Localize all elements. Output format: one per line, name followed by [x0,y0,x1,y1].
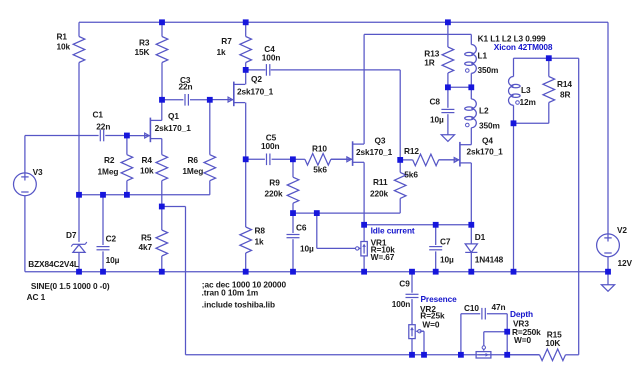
inductor L3 [508,77,535,107]
wire [78,63,80,195]
resistor R1 [57,32,85,63]
wire [245,159,247,227]
svg-text:R6: R6 [188,155,199,165]
wire [246,69,266,71]
svg-text:Idle current: Idle current [371,226,415,236]
svg-text:1Meg: 1Meg [98,167,119,177]
svg-text:R8: R8 [255,226,266,236]
potentiometer VR2 [409,304,445,339]
svg-text:220k: 220k [370,188,389,198]
junction [124,133,130,139]
wire [470,163,472,225]
svg-text:1k: 1k [255,237,265,247]
svg-text:R14: R14 [557,79,572,89]
wire [447,114,449,135]
svg-text:L3: L3 [521,85,531,95]
wire [161,63,163,100]
capacitor C10 [464,302,506,320]
wire [78,22,80,36]
wire [435,225,437,245]
svg-text:C9: C9 [399,278,410,288]
svg-text:C7: C7 [440,237,451,247]
capacitor C1 [93,110,111,142]
text Presence [421,294,458,304]
svg-text:5k6: 5k6 [404,169,418,179]
capacitor C2 [97,234,120,266]
svg-text:R12: R12 [404,146,419,156]
wire [470,34,472,44]
wire [292,213,294,233]
svg-text:Q3: Q3 [375,135,386,145]
wire [447,22,449,47]
wire [331,158,353,160]
wire [420,330,424,332]
wire [293,212,400,214]
svg-text:22n: 22n [179,81,193,91]
svg-text:1R: 1R [424,58,435,68]
wire [245,70,247,85]
wire [102,251,104,271]
svg-text:Xicon 42TM008: Xicon 42TM008 [494,42,553,52]
resistor R14 [543,77,572,103]
wire [161,22,163,36]
svg-text:C1: C1 [93,110,104,120]
svg-text:10k: 10k [140,166,154,176]
capacitor C8 [430,97,455,125]
wire [607,272,609,285]
junction [445,19,451,25]
inductor L2 [465,99,500,130]
wire [292,159,294,177]
svg-text:10k: 10k [57,42,71,52]
svg-text:1k: 1k [217,47,227,57]
svg-text:R9: R9 [269,177,280,187]
svg-text:10µ: 10µ [440,255,454,265]
junction [159,97,165,103]
svg-text:12V: 12V [618,258,633,268]
svg-text:2sk170_1: 2sk170_1 [237,87,274,97]
junction [445,84,451,90]
wire [245,63,247,70]
junction [511,120,517,126]
wire [185,207,187,355]
svg-text:350m: 350m [478,65,499,75]
potentiometer VR1 [356,237,396,262]
wire [439,159,460,161]
junction [159,19,165,25]
junction [421,352,427,358]
svg-text:BZX84C2V4L: BZX84C2V4L [28,259,79,269]
capacitor C7 [429,237,454,265]
wire [161,100,163,121]
wire [507,354,539,356]
wire [411,272,413,293]
resistor R9 [265,177,299,203]
svg-text:R11: R11 [373,177,388,187]
wire [292,203,294,213]
wire [461,313,480,315]
svg-text:L2: L2 [479,106,489,116]
svg-text:Presence: Presence [421,294,458,304]
wire [209,100,211,155]
transistor Q3 [331,135,393,166]
svg-text:Q2: Q2 [251,74,262,84]
ground [441,135,454,142]
junction [468,222,474,228]
junction [361,222,367,228]
wire [161,139,163,155]
svg-text:1Meg: 1Meg [182,166,203,176]
wire [470,73,472,87]
svg-text:V3: V3 [33,167,43,177]
svg-text:L1: L1 [478,51,488,61]
resistor R7 [217,36,252,63]
text K1 [478,33,546,43]
junction [605,269,611,275]
resistor R2 [98,155,133,181]
wire [470,87,472,99]
wire [24,136,26,174]
svg-text:C8: C8 [430,97,441,107]
junction [511,269,517,275]
junction [361,269,367,275]
wire [607,257,609,272]
svg-text:2sk170_1: 2sk170_1 [155,123,192,133]
wire [470,128,472,145]
spice directive ac [202,279,287,289]
wire [566,354,579,356]
junction [76,192,82,198]
wire [24,196,26,272]
junction [504,329,510,335]
svg-text:AC 1: AC 1 [27,292,46,302]
svg-text:8R: 8R [560,90,571,100]
svg-text:Q4: Q4 [482,135,493,145]
resistor R13 [424,47,453,73]
svg-text:47n: 47n [492,302,506,312]
resistor R3 [135,37,168,63]
wire [363,225,365,242]
svg-text:SINE(0 1.5 1000 0 -0): SINE(0 1.5 1000 0 -0) [31,281,110,291]
junction [504,352,510,358]
wire [411,339,413,355]
wire [399,70,401,160]
voltage source V3 [14,167,110,302]
junction [290,156,296,162]
transistor Q2 [210,74,274,106]
wire [363,34,365,144]
zener diode D7 [28,230,87,269]
junction [314,210,320,216]
junction [290,210,296,216]
junction [243,67,249,73]
svg-text:C6: C6 [296,222,307,232]
wire [245,103,247,160]
svg-text:10µ: 10µ [430,115,444,125]
junction [433,269,439,275]
svg-text:R5: R5 [141,233,152,243]
wire [548,103,550,124]
resistor R5 [139,230,168,256]
text Xicon 42TM008 [494,42,553,52]
junction [243,19,249,25]
wire [447,87,449,108]
wire [411,299,413,325]
svg-text:Depth: Depth [510,309,533,319]
wire [514,57,579,59]
resistor R12 [404,146,439,179]
svg-text:R2: R2 [104,155,115,165]
wire [484,331,507,333]
resistor R10 [305,144,331,175]
wire [399,198,401,213]
junction [76,269,82,275]
junction [409,269,415,275]
wire [447,73,449,87]
wire [506,314,508,355]
wire [292,239,294,272]
transistor Q4 [439,135,503,166]
wire [435,251,437,271]
svg-text:12m: 12m [520,97,536,107]
junction [546,55,552,61]
junction [100,192,106,198]
junction [458,352,464,358]
svg-text:22n: 22n [96,122,110,132]
wire [190,99,210,101]
junction [159,269,165,275]
spice directive tran [202,287,259,297]
wire [607,22,609,234]
wire [102,195,104,245]
wire [487,313,507,315]
inductor L1 [465,45,499,76]
svg-text:10µ: 10µ [106,255,120,265]
wire [548,58,550,76]
svg-text:D1: D1 [475,232,486,242]
svg-text:R10: R10 [312,144,327,154]
junction [124,192,130,198]
wire [470,225,472,244]
wire [79,194,210,196]
svg-text:.tran 0 10m 1m: .tran 0 10m 1m [202,287,259,297]
capacitor C3 [179,75,193,106]
wire [470,252,472,271]
wire [316,213,318,248]
svg-text:100n: 100n [392,299,411,309]
wire [161,181,163,207]
svg-text:W=0: W=0 [514,335,531,345]
text Depth [510,309,533,319]
wire [400,159,413,161]
svg-text:C2: C2 [106,234,117,244]
wire [209,181,211,195]
wire [161,207,163,231]
svg-text:2sk170_1: 2sk170_1 [356,147,393,157]
text Idle current [371,226,415,236]
svg-text:.include toshiba.lib: .include toshiba.lib [202,299,275,309]
wire [25,271,608,273]
wire [162,206,186,208]
wire [448,86,471,88]
svg-text:D7: D7 [66,230,77,240]
svg-text:10µ: 10µ [300,244,314,254]
svg-text:100n: 100n [261,141,280,151]
junction [433,222,439,228]
ground [601,285,614,292]
svg-text:5k6: 5k6 [313,165,327,175]
junction [243,156,249,162]
junction [243,269,249,275]
junction [207,97,213,103]
wire [25,135,99,137]
svg-text:R3: R3 [139,38,150,48]
svg-text:1N4148: 1N4148 [475,255,504,265]
wire [78,253,80,272]
wire [317,247,357,249]
wire [245,22,247,36]
resistor R15 [540,329,566,360]
wire [399,160,401,173]
wire [363,256,365,272]
resistor R6 [182,155,215,181]
transistor Q1 [127,111,191,142]
wire [513,123,515,271]
wire [364,33,471,35]
wire [363,162,365,225]
capacitor C9 [392,278,419,309]
wire [105,135,127,137]
junction [290,269,296,275]
wire [126,136,128,155]
potentiometer VR3 [476,319,541,359]
wire [271,69,401,71]
capacitor C4 [262,44,281,76]
svg-text:15K: 15K [135,47,150,57]
wire [460,314,462,355]
svg-text:100n: 100n [262,53,281,63]
wire [162,99,183,101]
wire [293,158,305,160]
wire [126,181,128,195]
wire [161,256,163,272]
resistor R8 [240,226,265,254]
spice directive include [202,299,275,309]
wire [364,224,471,226]
svg-text:2sk170_1: 2sk170_1 [467,147,504,157]
resistor R11 [370,172,406,198]
wire [79,21,608,23]
wire [246,158,265,160]
wire [272,158,293,160]
junction [468,84,474,90]
junction [409,352,415,358]
junction [159,204,165,210]
wire [513,58,515,76]
resistor R4 [140,155,168,181]
capacitor C6 [287,222,315,253]
junction [468,269,474,275]
voltage source V2 [597,225,633,268]
svg-text:R7: R7 [221,36,232,46]
svg-text:350m: 350m [479,120,500,130]
wire [423,331,425,355]
svg-text:10K: 10K [545,338,560,348]
svg-text:Q1: Q1 [168,111,179,121]
junction [397,157,403,163]
svg-text:R4: R4 [142,155,153,165]
wire [78,195,80,242]
svg-text:W=0: W=0 [422,319,439,329]
wire [245,253,247,272]
capacitor C5 [261,133,280,166]
wire [186,354,540,356]
diode D1 [465,232,503,265]
svg-text:W=.67: W=.67 [371,252,395,262]
wire [514,122,549,124]
svg-text:220k: 220k [265,188,284,198]
svg-text:R1: R1 [57,32,68,42]
junction [100,269,106,275]
svg-text:V2: V2 [617,225,627,235]
wire [513,105,515,123]
wire [578,58,580,355]
svg-text:C10: C10 [464,303,479,313]
wire [483,332,485,348]
svg-text:4k7: 4k7 [139,242,153,252]
